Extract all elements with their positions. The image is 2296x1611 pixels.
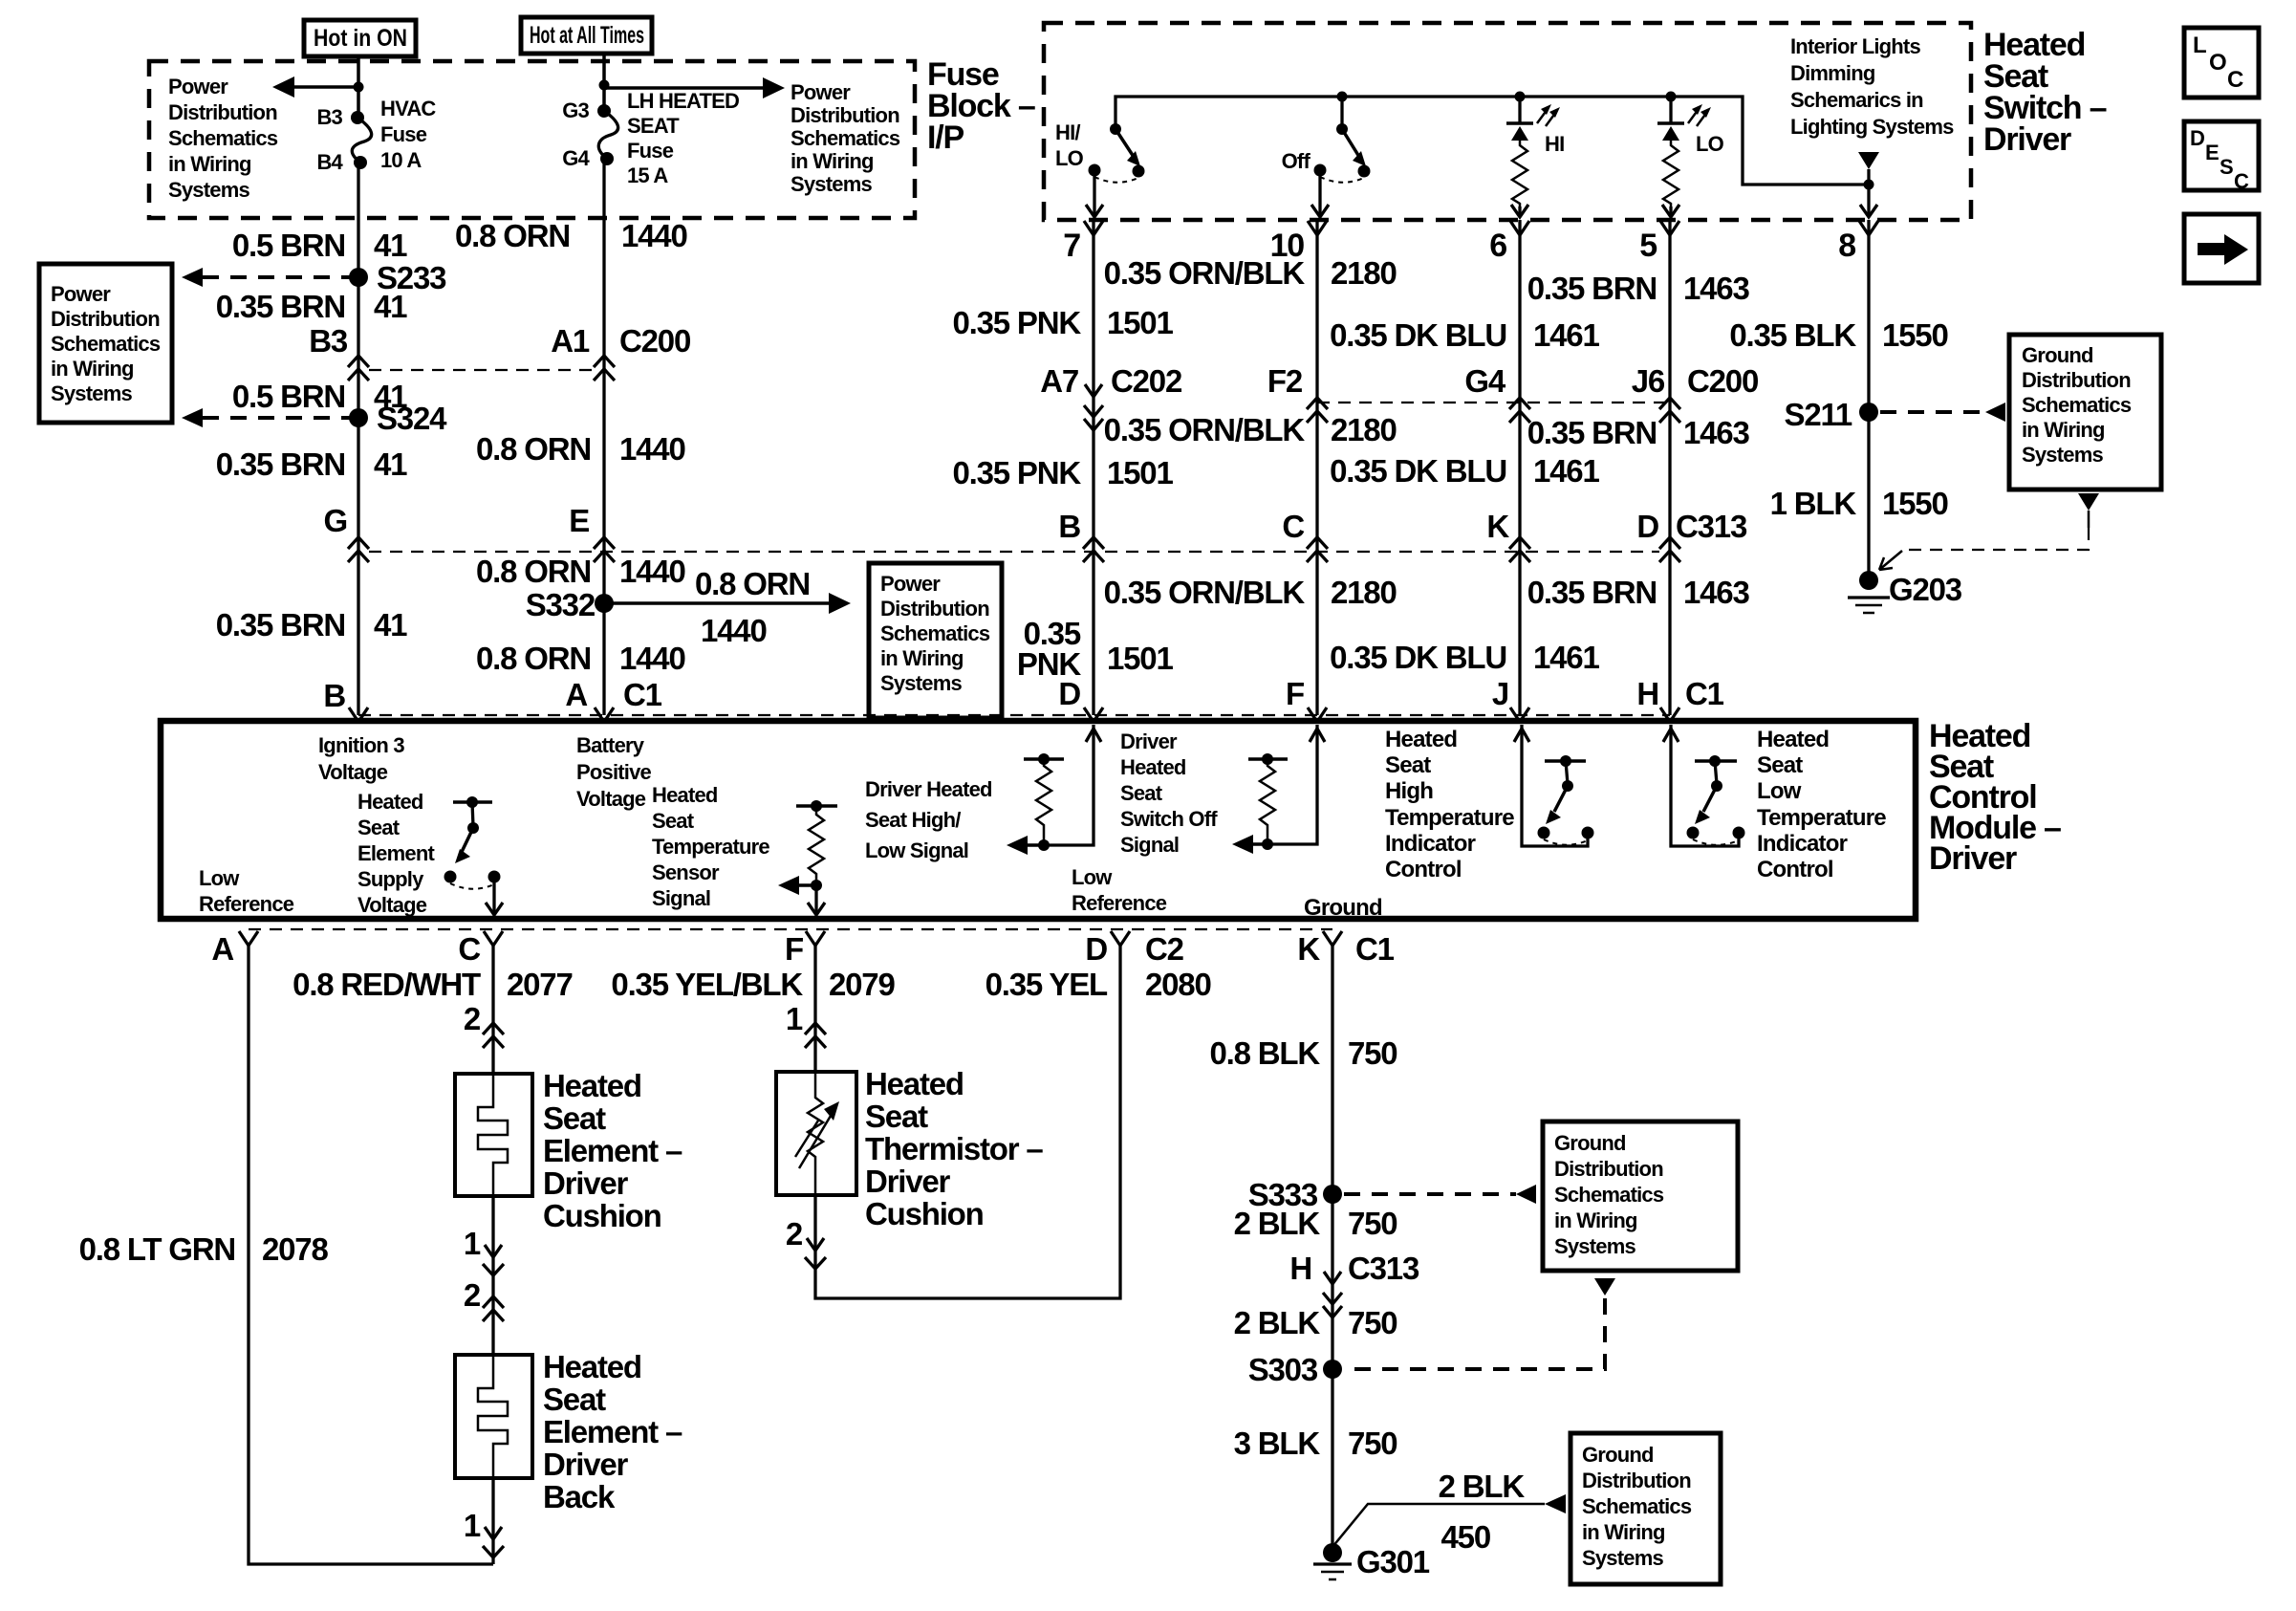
svg-text:Back: Back: [543, 1479, 616, 1514]
junction node on LH heated seat feed: [599, 80, 610, 91]
svg-text:C: C: [1282, 509, 1304, 544]
LOC reference icon box: [2184, 28, 2259, 98]
wire label 0.8 ORN 1440 (second): [476, 431, 685, 467]
svg-text:Systems: Systems: [880, 671, 962, 695]
svg-text:K: K: [1486, 509, 1509, 544]
svg-text:0.5 BRN: 0.5 BRN: [232, 379, 345, 414]
connector C313 chevrons wire 6: [1509, 537, 1530, 562]
wire label 0.8 RED/WHT 2077: [292, 967, 572, 1002]
power distribution reference text (right, in fuse box): [791, 80, 900, 196]
svg-text:2080: 2080: [1145, 967, 1211, 1002]
svg-text:Heated: Heated: [543, 1068, 641, 1103]
svg-text:1440: 1440: [701, 613, 767, 648]
svg-text:41: 41: [374, 228, 407, 263]
DESC reference icon box: [2184, 121, 2259, 193]
svg-text:2078: 2078: [262, 1231, 328, 1267]
fuse block I/P dashed box: [149, 61, 915, 218]
svg-text:Heated: Heated: [543, 1349, 641, 1384]
wire label 3 BLK 750: [1234, 1426, 1397, 1461]
svg-text:Element: Element: [357, 841, 435, 865]
svg-text:S324: S324: [377, 401, 447, 436]
svg-text:0.35 PNK: 0.35 PNK: [953, 305, 1082, 340]
svg-text:Ignition 3: Ignition 3: [318, 733, 404, 757]
svg-text:Temperature: Temperature: [652, 835, 769, 859]
svg-text:Distribution: Distribution: [791, 103, 899, 127]
interior lights reference triangle and drop to node: [1858, 152, 1879, 190]
wire label 0.35 BRN 41: [216, 289, 407, 324]
wire high indicator to module pin J: [1514, 725, 1588, 846]
module title Heated Seat Control Module - Driver: [1929, 718, 2061, 877]
svg-text:Seat: Seat: [1385, 752, 1431, 778]
heated seat switch dashed box: [1044, 23, 1971, 220]
svg-text:0.35 ORN/BLK: 0.35 ORN/BLK: [1104, 255, 1306, 291]
wire label 0.8 ORN 1440 (bottom): [476, 641, 685, 676]
svg-text:B: B: [1058, 509, 1080, 544]
connector C313 chevrons wire 5: [1659, 537, 1680, 562]
svg-text:0.8 ORN: 0.8 ORN: [476, 641, 591, 676]
connector arrow down at back pin 1: [483, 1527, 504, 1557]
svg-text:Signal: Signal: [652, 886, 710, 910]
svg-text:0.35 DK BLU: 0.35 DK BLU: [1330, 640, 1506, 675]
svg-text:A: A: [565, 677, 587, 712]
svg-text:2 BLK: 2 BLK: [1234, 1206, 1321, 1241]
svg-text:LH HEATED: LH HEATED: [627, 89, 739, 113]
svg-text:Fuse: Fuse: [627, 139, 674, 163]
svg-text:C: C: [458, 931, 480, 967]
wire label 0.35 BRN 1463 (row 2): [1527, 415, 1750, 450]
svg-text:A7: A7: [1040, 363, 1078, 399]
connector Y at module pin H: [1660, 708, 1679, 722]
svg-text:Dimming: Dimming: [1790, 61, 1875, 85]
wire label 0.8 LT GRN 2078: [79, 1231, 329, 1267]
svg-text:G301: G301: [1356, 1544, 1430, 1579]
svg-text:in Wiring: in Wiring: [1582, 1520, 1665, 1544]
module pin function Battery Positive Voltage: [576, 733, 652, 811]
svg-text:0.35 DK BLU: 0.35 DK BLU: [1330, 453, 1506, 489]
svg-text:Schematics: Schematics: [791, 126, 900, 150]
svg-text:C1: C1: [623, 677, 662, 712]
connector pin label H C313: [1289, 1251, 1419, 1286]
dashed reference arrow from S324 to power distribution box: [182, 408, 351, 427]
module top pin label A C1: [565, 677, 661, 712]
svg-text:in Wiring: in Wiring: [1554, 1208, 1637, 1232]
svg-text:0.8 ORN: 0.8 ORN: [476, 554, 591, 589]
connector pin label D C313: [1636, 509, 1747, 544]
svg-text:0.35 PNK: 0.35 PNK: [953, 455, 1082, 490]
svg-text:S211: S211: [1785, 397, 1852, 432]
wire low indicator to module pin H: [1663, 725, 1739, 846]
wire switch pin 8 drop: [1860, 185, 1877, 217]
wire label 0.35 BRN 1463 (row 1): [1527, 271, 1750, 306]
svg-text:Hot in ON: Hot in ON: [314, 25, 407, 52]
Off switch: [1282, 92, 1371, 183]
svg-text:1: 1: [464, 1226, 481, 1261]
wire label 0.8 ORN 1440 (third): [476, 554, 685, 589]
fuse value label LH HEATED SEAT Fuse 15 A: [627, 89, 739, 187]
connector C200 chevrons wire 5: [1659, 398, 1680, 423]
svg-text:750: 750: [1348, 1035, 1397, 1071]
fuse value label HVAC Fuse 10 A: [380, 97, 436, 172]
wire from Hot at All Times down into fuse box: [602, 54, 606, 111]
module pin function Heated Seat Element Supply Voltage: [357, 790, 435, 917]
svg-text:0.8 BLK: 0.8 BLK: [1210, 1035, 1321, 1071]
svg-text:Battery: Battery: [576, 733, 645, 757]
svg-text:Hot at All Times: Hot at All Times: [530, 22, 644, 49]
svg-text:Interior Lights: Interior Lights: [1790, 34, 1920, 58]
svg-text:Seat: Seat: [1757, 752, 1803, 778]
svg-text:1461: 1461: [1533, 453, 1599, 489]
svg-text:Low: Low: [1072, 865, 1113, 889]
svg-text:Systems: Systems: [168, 178, 249, 202]
svg-text:H: H: [1289, 1251, 1311, 1286]
svg-text:Ground: Ground: [1304, 895, 1382, 921]
svg-text:1440: 1440: [619, 554, 685, 589]
svg-text:Seat: Seat: [543, 1100, 606, 1136]
svg-text:Voltage: Voltage: [576, 787, 646, 811]
connector Y at module pin J: [1510, 708, 1529, 722]
svg-text:2180: 2180: [1331, 575, 1397, 610]
LO indicator lamp: [1657, 92, 1724, 207]
svg-text:0.8 LT GRN: 0.8 LT GRN: [79, 1231, 235, 1267]
svg-text:G: G: [324, 503, 347, 538]
svg-text:1 BLK: 1 BLK: [1770, 486, 1857, 521]
svg-text:in Wiring: in Wiring: [2022, 418, 2105, 442]
internal resistor switch off signal: [1232, 753, 1288, 854]
svg-text:Seat: Seat: [865, 1099, 928, 1134]
svg-text:J6: J6: [1632, 363, 1665, 399]
svg-text:1463: 1463: [1683, 575, 1749, 610]
wire 1463 from switch pin 5 to module pin H: [1668, 220, 1671, 715]
splice S303: [1248, 1352, 1342, 1387]
svg-text:Systems: Systems: [51, 381, 132, 405]
wire 41 circuit from fuse B4 down to module pin B: [357, 163, 359, 715]
svg-text:Voltage: Voltage: [357, 893, 427, 917]
in-line connector chevrons at back element pin 2: [483, 1296, 504, 1321]
svg-text:Schematics: Schematics: [1582, 1494, 1692, 1518]
svg-text:Supply: Supply: [357, 867, 424, 891]
svg-text:Seat High/: Seat High/: [865, 808, 961, 832]
svg-text:0.8 ORN: 0.8 ORN: [455, 218, 570, 253]
svg-text:1463: 1463: [1683, 271, 1749, 306]
svg-text:S303: S303: [1248, 1352, 1318, 1387]
svg-text:F2: F2: [1267, 363, 1303, 399]
module bottom connector dashed line: [249, 928, 1332, 930]
svg-text:Heated: Heated: [1385, 727, 1457, 752]
svg-text:C313: C313: [1676, 509, 1747, 544]
svg-text:Seat: Seat: [543, 1382, 606, 1417]
module bottom pin label D C2: [1085, 931, 1183, 967]
svg-text:0.8 ORN: 0.8 ORN: [695, 566, 810, 601]
svg-text:C200: C200: [619, 323, 690, 359]
wire label 0.35 YEL 2080: [986, 967, 1211, 1002]
svg-text:C2: C2: [1145, 931, 1184, 967]
svg-text:S332: S332: [526, 587, 596, 622]
ground distribution schematics reference box (bottom right): [1570, 1433, 1721, 1584]
svg-text:0.35 BRN: 0.35 BRN: [216, 446, 345, 482]
svg-text:750: 750: [1348, 1305, 1397, 1340]
svg-text:A: A: [211, 931, 233, 967]
module top pin label H C1: [1636, 676, 1723, 711]
wire switch pin 6 drop: [1511, 205, 1528, 217]
svg-text:G4: G4: [1464, 363, 1505, 399]
svg-text:Schematics: Schematics: [880, 621, 990, 645]
svg-text:0.35 DK BLU: 0.35 DK BLU: [1330, 317, 1506, 353]
svg-text:Seat: Seat: [1120, 781, 1163, 805]
connector arrow down at cushion pin 1: [483, 1245, 504, 1275]
svg-text:J: J: [1492, 676, 1508, 711]
svg-text:2077: 2077: [507, 967, 573, 1002]
in-line connector chevrons wire 41 at B3: [348, 356, 369, 381]
svg-text:Driver: Driver: [543, 1447, 629, 1482]
svg-text:S: S: [2220, 155, 2233, 179]
wire label 0.35 PNK 1501 (row 2): [953, 455, 1174, 490]
svg-text:7: 7: [1063, 228, 1080, 264]
svg-text:2: 2: [786, 1216, 803, 1252]
svg-text:Ground: Ground: [2022, 343, 2093, 367]
svg-text:1461: 1461: [1533, 317, 1599, 353]
dashed reference arrow S211 to ground distribution box: [1880, 403, 2005, 422]
svg-text:Power: Power: [51, 282, 111, 306]
svg-text:Schematics: Schematics: [51, 332, 161, 356]
wire 2180 from switch pin 10 to module pin F: [1315, 220, 1318, 715]
svg-text:Ground: Ground: [1582, 1443, 1654, 1467]
wire 750 ground from module pin K: [1331, 946, 1333, 1553]
svg-text:E: E: [569, 503, 589, 538]
connector pin label A7 C202: [1040, 363, 1182, 399]
wire switch pin 5 drop: [1662, 205, 1679, 217]
wire label 2 BLK 750: [1234, 1206, 1397, 1241]
svg-text:8: 8: [1838, 228, 1855, 264]
wire 1550 from switch pin 8 to ground G203: [1867, 220, 1870, 580]
svg-text:E: E: [2205, 141, 2219, 164]
svg-text:1550: 1550: [1882, 486, 1948, 521]
svg-text:Reference: Reference: [1072, 891, 1167, 915]
splice S211: [1785, 397, 1878, 432]
svg-text:Distribution: Distribution: [880, 597, 989, 620]
svg-text:0.35 BLK: 0.35 BLK: [1729, 317, 1856, 353]
wire label 0.35 DK BLU 1461 (row 3): [1330, 640, 1599, 675]
connector C200 dashed line (left): [369, 369, 594, 371]
svg-text:B4: B4: [316, 150, 343, 174]
svg-text:C: C: [2234, 169, 2249, 193]
svg-text:HVAC: HVAC: [380, 97, 436, 120]
svg-text:Low: Low: [199, 866, 240, 890]
wire label 0.35 PNK 1501 (row 3, stacked): [1017, 616, 1174, 682]
svg-text:6: 6: [1489, 228, 1506, 264]
svg-text:H: H: [1636, 676, 1658, 711]
wire label 0.35 ORN/BLK 2180 (row 2): [1104, 412, 1397, 447]
svg-text:B3: B3: [316, 105, 342, 129]
svg-text:F: F: [1286, 676, 1304, 711]
wire 1440 from fuse G4 down to module pin A: [602, 159, 605, 715]
power distribution reference text (left, in fuse box): [168, 75, 278, 202]
connector Y at module pin F: [1308, 708, 1327, 722]
HI/LO switch: [1055, 120, 1145, 183]
svg-text:Heated: Heated: [865, 1066, 964, 1101]
module pin function Driver Heated Seat Switch Off Signal: [1120, 729, 1218, 857]
dashed reference path S303 to ground distribution box: [1344, 1278, 1615, 1369]
wire label 1 BLK 1550: [1770, 486, 1948, 521]
svg-text:Thermistor –: Thermistor –: [865, 1131, 1043, 1166]
svg-text:2079: 2079: [829, 967, 895, 1002]
heated seat control module box: [161, 721, 1916, 919]
svg-text:1463: 1463: [1683, 415, 1749, 450]
switch internal supply rail wire: [1116, 97, 1869, 185]
wire 1501 from switch pin 7 to module pin D: [1092, 220, 1094, 715]
internal switch high temperature indicator: [1538, 755, 1594, 845]
svg-text:2 BLK: 2 BLK: [1234, 1305, 1321, 1340]
connector Y at switch pin 6: [1510, 221, 1529, 235]
splice S333: [1248, 1177, 1342, 1212]
svg-text:HI/: HI/: [1055, 120, 1080, 144]
svg-text:0.8 ORN: 0.8 ORN: [476, 431, 591, 467]
svg-text:750: 750: [1348, 1426, 1397, 1461]
svg-text:Systems: Systems: [2022, 443, 2103, 467]
svg-text:Indicator: Indicator: [1757, 831, 1848, 857]
svg-text:Systems: Systems: [1554, 1234, 1635, 1258]
svg-text:41: 41: [374, 446, 407, 482]
svg-text:O: O: [2209, 50, 2226, 76]
svg-text:G3: G3: [562, 98, 589, 122]
svg-text:Indicator: Indicator: [1385, 831, 1476, 857]
connector C200 chevrons wire 6: [1509, 398, 1530, 423]
wire from Hot in ON down into fuse box: [357, 56, 360, 118]
svg-text:Control: Control: [1385, 857, 1462, 882]
svg-text:Driver: Driver: [1120, 729, 1178, 753]
svg-text:41: 41: [374, 289, 407, 324]
connector arrow down at thermistor pin 2: [805, 1238, 826, 1269]
wire label 2 BLK 750 (below C313): [1234, 1305, 1397, 1340]
svg-text:Positive: Positive: [576, 760, 652, 784]
svg-text:2180: 2180: [1331, 255, 1397, 291]
in-line connector chevrons at element pin 2: [483, 1023, 504, 1048]
connector C202 arrow down on wire 7: [1084, 384, 1103, 430]
svg-text:Systems: Systems: [1582, 1546, 1663, 1570]
ground distribution schematics reference box (upper right): [2009, 335, 2161, 490]
ground G203: [1848, 571, 1962, 613]
svg-text:Cushion: Cushion: [865, 1196, 984, 1231]
dashed reference arrow S333 to ground distribution box: [1344, 1185, 1536, 1204]
wire 2077 from module pin C to element: [491, 946, 494, 1074]
svg-text:5: 5: [1639, 228, 1657, 264]
svg-text:Power: Power: [168, 75, 228, 98]
connector Y at switch pin 10: [1308, 221, 1327, 235]
heated seat thermistor driver cushion box: [776, 1072, 856, 1195]
wire high/low signal to module pin D: [1044, 725, 1101, 845]
svg-text:Seat: Seat: [652, 809, 695, 833]
wire label 0.8 ORN 1440 (top): [455, 218, 687, 253]
svg-text:Driver: Driver: [1983, 121, 2071, 158]
svg-text:K: K: [1297, 931, 1320, 967]
svg-text:0.35 ORN/BLK: 0.35 ORN/BLK: [1104, 412, 1306, 447]
svg-text:LO: LO: [1055, 146, 1084, 170]
forward arrow icon box: [2184, 214, 2259, 283]
in-line connector chevrons wire 1440 at A1: [594, 356, 615, 381]
svg-text:2180: 2180: [1331, 412, 1397, 447]
svg-text:Driver Heated: Driver Heated: [865, 777, 992, 801]
splice S332: [526, 587, 614, 622]
svg-text:Control: Control: [1757, 857, 1833, 882]
svg-text:1: 1: [786, 1001, 803, 1036]
svg-text:1440: 1440: [619, 641, 685, 676]
svg-text:Heated: Heated: [1120, 755, 1186, 779]
module top connector dashed line: [358, 714, 1670, 716]
svg-text:Voltage: Voltage: [318, 760, 388, 784]
svg-text:1440: 1440: [619, 431, 685, 467]
wire switch pin 10 drop: [1311, 170, 1329, 217]
module pin function Heated Seat Temperature Sensor Signal: [652, 783, 769, 910]
svg-text:2: 2: [464, 1001, 481, 1036]
module pin function Driver Heated Seat High/Low Signal: [865, 777, 992, 862]
module pin function Low Reference (left): [199, 866, 294, 916]
svg-text:Heated: Heated: [1757, 727, 1829, 752]
svg-text:D: D: [1085, 931, 1107, 967]
svg-text:HI: HI: [1545, 132, 1564, 156]
svg-text:Distribution: Distribution: [1582, 1469, 1691, 1492]
arrow from S332 to power distribution reference: [604, 566, 851, 648]
svg-text:Low: Low: [1757, 778, 1802, 804]
svg-text:15 A: 15 A: [627, 163, 668, 187]
wire label 0.35 ORN/BLK 2180 (row 1): [1104, 255, 1397, 291]
wire label 0.35 BLK 1550: [1729, 317, 1947, 353]
wire 1461 from switch pin 6 to module pin J: [1518, 220, 1521, 715]
svg-text:Distribution: Distribution: [51, 307, 160, 331]
svg-text:F: F: [785, 931, 803, 967]
svg-text:1550: 1550: [1882, 317, 1948, 353]
wire label 0.35 PNK 1501 (row 1): [953, 305, 1174, 340]
svg-text:G203: G203: [1889, 572, 1962, 607]
wire element cushion pin 1 to back element pin 2: [491, 1196, 494, 1355]
svg-text:B: B: [323, 678, 345, 713]
svg-text:Schemarics in: Schemarics in: [1790, 88, 1923, 112]
power distribution schematics reference box (left): [39, 264, 172, 423]
label box Hot in ON: [304, 20, 416, 56]
connector Y at switch pin 7: [1084, 221, 1103, 235]
wire label 0.35 YEL/BLK 2079: [611, 967, 895, 1002]
HI indicator lamp: [1506, 92, 1564, 207]
svg-text:Ground: Ground: [1554, 1131, 1626, 1155]
svg-text:Driver: Driver: [1929, 840, 2017, 877]
svg-text:0.5 BRN: 0.5 BRN: [232, 228, 345, 263]
dashed reference arrow from S233 to power distribution box: [182, 268, 351, 287]
module pin function Ignition 3 Voltage: [318, 733, 404, 784]
module pin function Low Reference (right): [1072, 865, 1167, 915]
svg-text:41: 41: [374, 607, 407, 642]
in-line connector chevrons wire 41 at G: [348, 537, 369, 562]
svg-text:Systems: Systems: [791, 172, 872, 196]
svg-text:0.35 BRN: 0.35 BRN: [216, 607, 345, 642]
svg-text:Power: Power: [880, 572, 941, 596]
svg-text:in Wiring: in Wiring: [168, 152, 251, 176]
svg-text:Element –: Element –: [543, 1414, 682, 1449]
svg-text:Temperature: Temperature: [1757, 805, 1886, 831]
wire switch off signal to module pin F: [1267, 725, 1325, 844]
connector C200 chevrons wire 10: [1307, 398, 1328, 423]
svg-text:C1: C1: [1355, 931, 1395, 967]
svg-text:Heated: Heated: [652, 783, 718, 807]
connector C200 dashed line (switch side): [1317, 402, 1670, 403]
module pin function Heated Seat High Temperature Indicator Control: [1385, 727, 1514, 882]
label box Hot at All Times: [521, 17, 652, 54]
svg-text:C200: C200: [1687, 363, 1758, 399]
wire label 0.35 DK BLU 1461 (row 1): [1330, 317, 1599, 353]
wire label 0.8 BLK 750: [1210, 1035, 1397, 1071]
svg-text:A1: A1: [551, 323, 590, 359]
heated seat element driver back box: [455, 1355, 532, 1478]
wire 2079 from module pin F to thermistor: [813, 946, 816, 1072]
fuse block title Fuse Block - I/P: [927, 56, 1035, 156]
fuse LH HEATED SEAT 15A (G3-G4): [597, 104, 618, 165]
